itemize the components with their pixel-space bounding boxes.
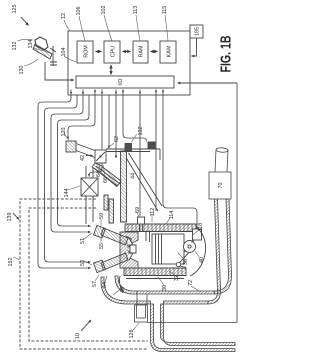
svg-text:125: 125 bbox=[12, 5, 18, 14]
svg-text:42: 42 bbox=[80, 155, 86, 161]
svg-text:152: 152 bbox=[8, 258, 14, 267]
svg-text:44: 44 bbox=[131, 173, 137, 179]
svg-text:40: 40 bbox=[199, 257, 205, 263]
svg-text:KAM: KAM bbox=[167, 45, 173, 57]
svg-text:69: 69 bbox=[135, 207, 141, 213]
svg-text:115: 115 bbox=[162, 6, 168, 15]
svg-text:30: 30 bbox=[162, 285, 168, 291]
svg-text:112: 112 bbox=[150, 208, 156, 217]
svg-text:120: 120 bbox=[61, 128, 67, 137]
svg-text:FIG. 1B: FIG. 1B bbox=[218, 35, 235, 72]
svg-text:I/O: I/O bbox=[118, 78, 124, 85]
svg-text:104: 104 bbox=[61, 48, 67, 57]
svg-text:144: 144 bbox=[64, 189, 70, 198]
svg-text:54: 54 bbox=[102, 282, 108, 288]
svg-text:48: 48 bbox=[120, 287, 126, 293]
svg-text:36: 36 bbox=[183, 259, 189, 265]
svg-text:102: 102 bbox=[101, 6, 107, 15]
svg-text:132: 132 bbox=[12, 42, 18, 51]
svg-text:53: 53 bbox=[80, 260, 86, 266]
svg-text:114: 114 bbox=[169, 211, 175, 220]
svg-text:CPU: CPU bbox=[111, 46, 117, 57]
svg-text:55: 55 bbox=[99, 243, 105, 249]
svg-text:57: 57 bbox=[92, 281, 98, 287]
svg-text:59: 59 bbox=[99, 213, 105, 219]
svg-text:ROM: ROM bbox=[84, 45, 90, 58]
svg-text:64: 64 bbox=[96, 171, 102, 177]
svg-text:62: 62 bbox=[114, 136, 120, 142]
svg-text:70: 70 bbox=[218, 183, 224, 189]
svg-text:139: 139 bbox=[7, 213, 13, 222]
svg-text:134: 134 bbox=[28, 40, 34, 49]
svg-text:72: 72 bbox=[188, 280, 194, 286]
svg-text:185: 185 bbox=[195, 27, 201, 36]
svg-text:122: 122 bbox=[138, 127, 144, 136]
svg-text:RAM: RAM bbox=[139, 45, 145, 57]
svg-text:126: 126 bbox=[129, 330, 135, 339]
svg-text:118: 118 bbox=[198, 223, 204, 232]
svg-text:66: 66 bbox=[103, 177, 109, 183]
svg-text:10: 10 bbox=[75, 333, 81, 339]
svg-text:106: 106 bbox=[76, 7, 82, 16]
svg-text:113: 113 bbox=[133, 6, 139, 15]
svg-text:130: 130 bbox=[19, 66, 25, 75]
svg-text:51: 51 bbox=[80, 238, 86, 244]
svg-text:32: 32 bbox=[174, 275, 180, 281]
svg-text:12: 12 bbox=[61, 13, 67, 19]
